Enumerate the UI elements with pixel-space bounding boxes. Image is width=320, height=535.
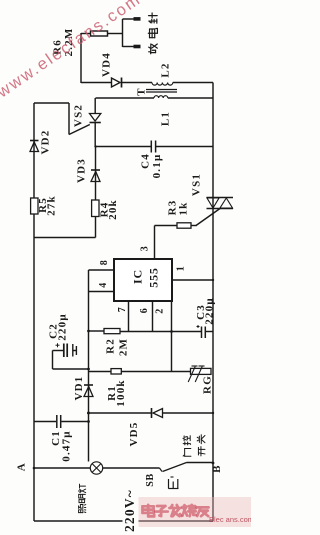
- wire VD4 to transformer L2: [122, 82, 153, 84]
- resistor R2 2M: [104, 329, 130, 357]
- svg-text:2M: 2M: [118, 338, 130, 356]
- wire R6 right lead: [108, 33, 123, 35]
- svg-text:B: B: [211, 465, 223, 473]
- wire VS1 gate diagonal: [196, 209, 220, 226]
- wire C3 to right rail: [206, 331, 214, 333]
- svg-text:VS2: VS2: [73, 104, 85, 127]
- watermark diagonal www.elecfans.com: [0, 0, 145, 102]
- svg-text:VD4: VD4: [101, 52, 113, 77]
- svg-text:IC: IC: [130, 269, 144, 284]
- svg-text:0.47μ: 0.47μ: [61, 430, 73, 462]
- svg-text:R2: R2: [105, 338, 117, 354]
- pin label 2: [154, 308, 165, 314]
- lamp (zhao-ming-deng illumination lamp): [78, 462, 102, 513]
- svg-text:4: 4: [98, 282, 109, 288]
- svg-text:2: 2: [154, 308, 165, 314]
- diode VD4: [101, 52, 122, 88]
- transformer T primary winding L2: [152, 62, 173, 85]
- svg-text:1k: 1k: [178, 201, 190, 215]
- svg-text:www.elecfans.com: www.elecfans.com: [0, 0, 145, 102]
- svg-text:VS1: VS1: [191, 173, 203, 196]
- watermark bottom elecfans: [137, 497, 254, 527]
- node A label: [16, 463, 28, 471]
- resistor R5 27k: [31, 195, 58, 216]
- diode VD2: [30, 130, 52, 155]
- svg-text:220μ: 220μ: [204, 297, 216, 325]
- wire VD5 row left segment: [87, 412, 151, 415]
- svg-text:L1: L1: [160, 111, 172, 126]
- capacitor C2 220u electrolytic loop: [48, 313, 89, 369]
- wire VS2 gate to VD2 branch: [34, 103, 90, 135]
- left rail: [33, 103, 35, 521]
- pin label 8: [99, 260, 110, 266]
- resistor R1 100k: [106, 369, 127, 407]
- op-amp U1 timer IC 555 body: [114, 259, 172, 301]
- svg-text:555: 555: [146, 267, 160, 287]
- wire R4 bottom lead: [95, 217, 97, 238]
- svg-text:VD1: VD1: [73, 376, 85, 401]
- svg-text:27k: 27k: [46, 195, 58, 216]
- wire pins 8-4 vertical down to lamp node: [88, 270, 90, 462]
- diode VD3: [76, 147, 100, 201]
- bottom rail 220V: [34, 520, 213, 522]
- svg-text:8: 8: [99, 260, 110, 266]
- junction dots: [87, 145, 214, 423]
- wire pins row 7-6-2 to C3: [120, 331, 201, 333]
- wire R3 to IC pin 3: [155, 226, 197, 260]
- wire IC pin 6: [152, 301, 154, 332]
- discharge needle electrodes (fang-dian-zhen): [123, 13, 158, 54]
- svg-text:6: 6: [139, 308, 150, 314]
- right rail: [212, 83, 214, 522]
- wire IC pin 1 to right rail: [172, 279, 213, 281]
- pin label 4: [98, 282, 109, 288]
- svg-text:1: 1: [175, 266, 186, 272]
- wire VD5 row to right rail: [163, 412, 213, 414]
- svg-text:220V~: 220V~: [122, 489, 137, 532]
- svg-text:VD3: VD3: [76, 158, 88, 183]
- photoresistor RG: [172, 366, 214, 394]
- wire C4 row left segment: [96, 146, 152, 148]
- wire C4 to right rail: [156, 146, 213, 148]
- pin label 1: [175, 266, 186, 272]
- wire C1 row: [34, 421, 89, 423]
- pin label 6: [139, 308, 150, 314]
- svg-text:RG: RG: [202, 375, 214, 394]
- svg-text:C4: C4: [140, 153, 152, 169]
- svg-text:A: A: [16, 463, 28, 471]
- svg-text:0.1μ: 0.1μ: [151, 154, 163, 179]
- resistor R6 2.2M: [52, 28, 108, 57]
- node B label: [211, 465, 223, 473]
- capacitor C1 0.47u: [50, 415, 73, 462]
- triac VS1: [191, 173, 233, 209]
- svg-text:T: T: [136, 87, 148, 96]
- svg-text:20k: 20k: [107, 199, 119, 220]
- wire IC pin 2 down to R1/RG row: [171, 301, 173, 372]
- svg-text:220μ: 220μ: [57, 313, 69, 341]
- transformer T secondary winding L1: [96, 96, 214, 126]
- pin label 7: [117, 307, 128, 313]
- diode VD5: [128, 408, 162, 447]
- capacitor C4 0.1u: [140, 141, 164, 179]
- switch SB door-controlled (men-kong-kai-guan): [145, 435, 215, 489]
- svg-text:100k: 100k: [115, 379, 127, 406]
- wire IC pin 4: [89, 291, 115, 293]
- wire R1 leads: [89, 371, 172, 373]
- svg-text:VD5: VD5: [128, 422, 140, 447]
- transformer T core: [136, 87, 177, 96]
- resistor R3 1k: [167, 200, 191, 229]
- wire IC pin 7: [128, 301, 130, 332]
- wire L2 to right rail: [173, 82, 213, 84]
- svg-text:SB: SB: [145, 473, 156, 486]
- pin label 3: [139, 246, 150, 252]
- svg-text:VD2: VD2: [40, 130, 52, 155]
- svg-text:3: 3: [139, 246, 150, 252]
- diode VD1: [73, 376, 93, 401]
- wire R6 left lead and left drop to VD4 row: [81, 33, 112, 83]
- wire lamp row left: [33, 467, 91, 470]
- wire lamp to switch: [103, 467, 160, 469]
- thyristor VS2: [73, 98, 101, 147]
- wire R5/R4 bottom junction row: [34, 237, 96, 239]
- source 220V~ label: [122, 487, 138, 534]
- resistor R4 20k: [92, 199, 119, 220]
- svg-text:7: 7: [117, 307, 128, 313]
- wire IC pin 8: [89, 269, 115, 271]
- capacitor C3 220u electrolytic: [195, 297, 216, 338]
- svg-text:Elec ans.com: Elec ans.com: [209, 515, 251, 524]
- wire R2 left lead: [87, 330, 104, 333]
- svg-text:L2: L2: [160, 62, 172, 77]
